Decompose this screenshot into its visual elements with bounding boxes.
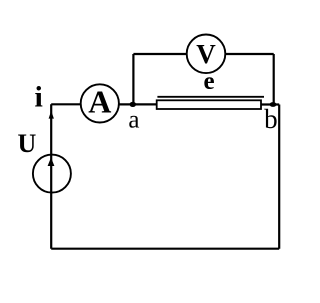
svg-text:V: V: [196, 39, 216, 69]
svg-text:i: i: [35, 81, 43, 114]
svg-text:U: U: [18, 129, 37, 158]
svg-text:A: A: [88, 83, 111, 119]
svg-text:b: b: [264, 104, 278, 134]
svg-text:e: e: [203, 68, 214, 95]
svg-text:a: a: [128, 106, 139, 133]
